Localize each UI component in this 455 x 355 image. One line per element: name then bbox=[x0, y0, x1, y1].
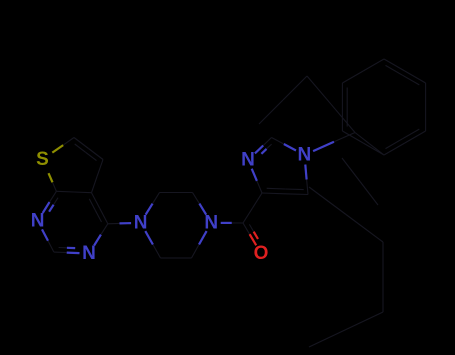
svg-text:N: N bbox=[204, 212, 218, 233]
svg-text:N: N bbox=[134, 212, 148, 233]
svg-text:S: S bbox=[36, 149, 49, 170]
svg-text:N: N bbox=[241, 150, 255, 171]
svg-text:N: N bbox=[82, 243, 96, 264]
svg-text:N: N bbox=[298, 145, 312, 166]
svg-text:N: N bbox=[31, 211, 45, 232]
svg-text:O: O bbox=[254, 243, 269, 264]
